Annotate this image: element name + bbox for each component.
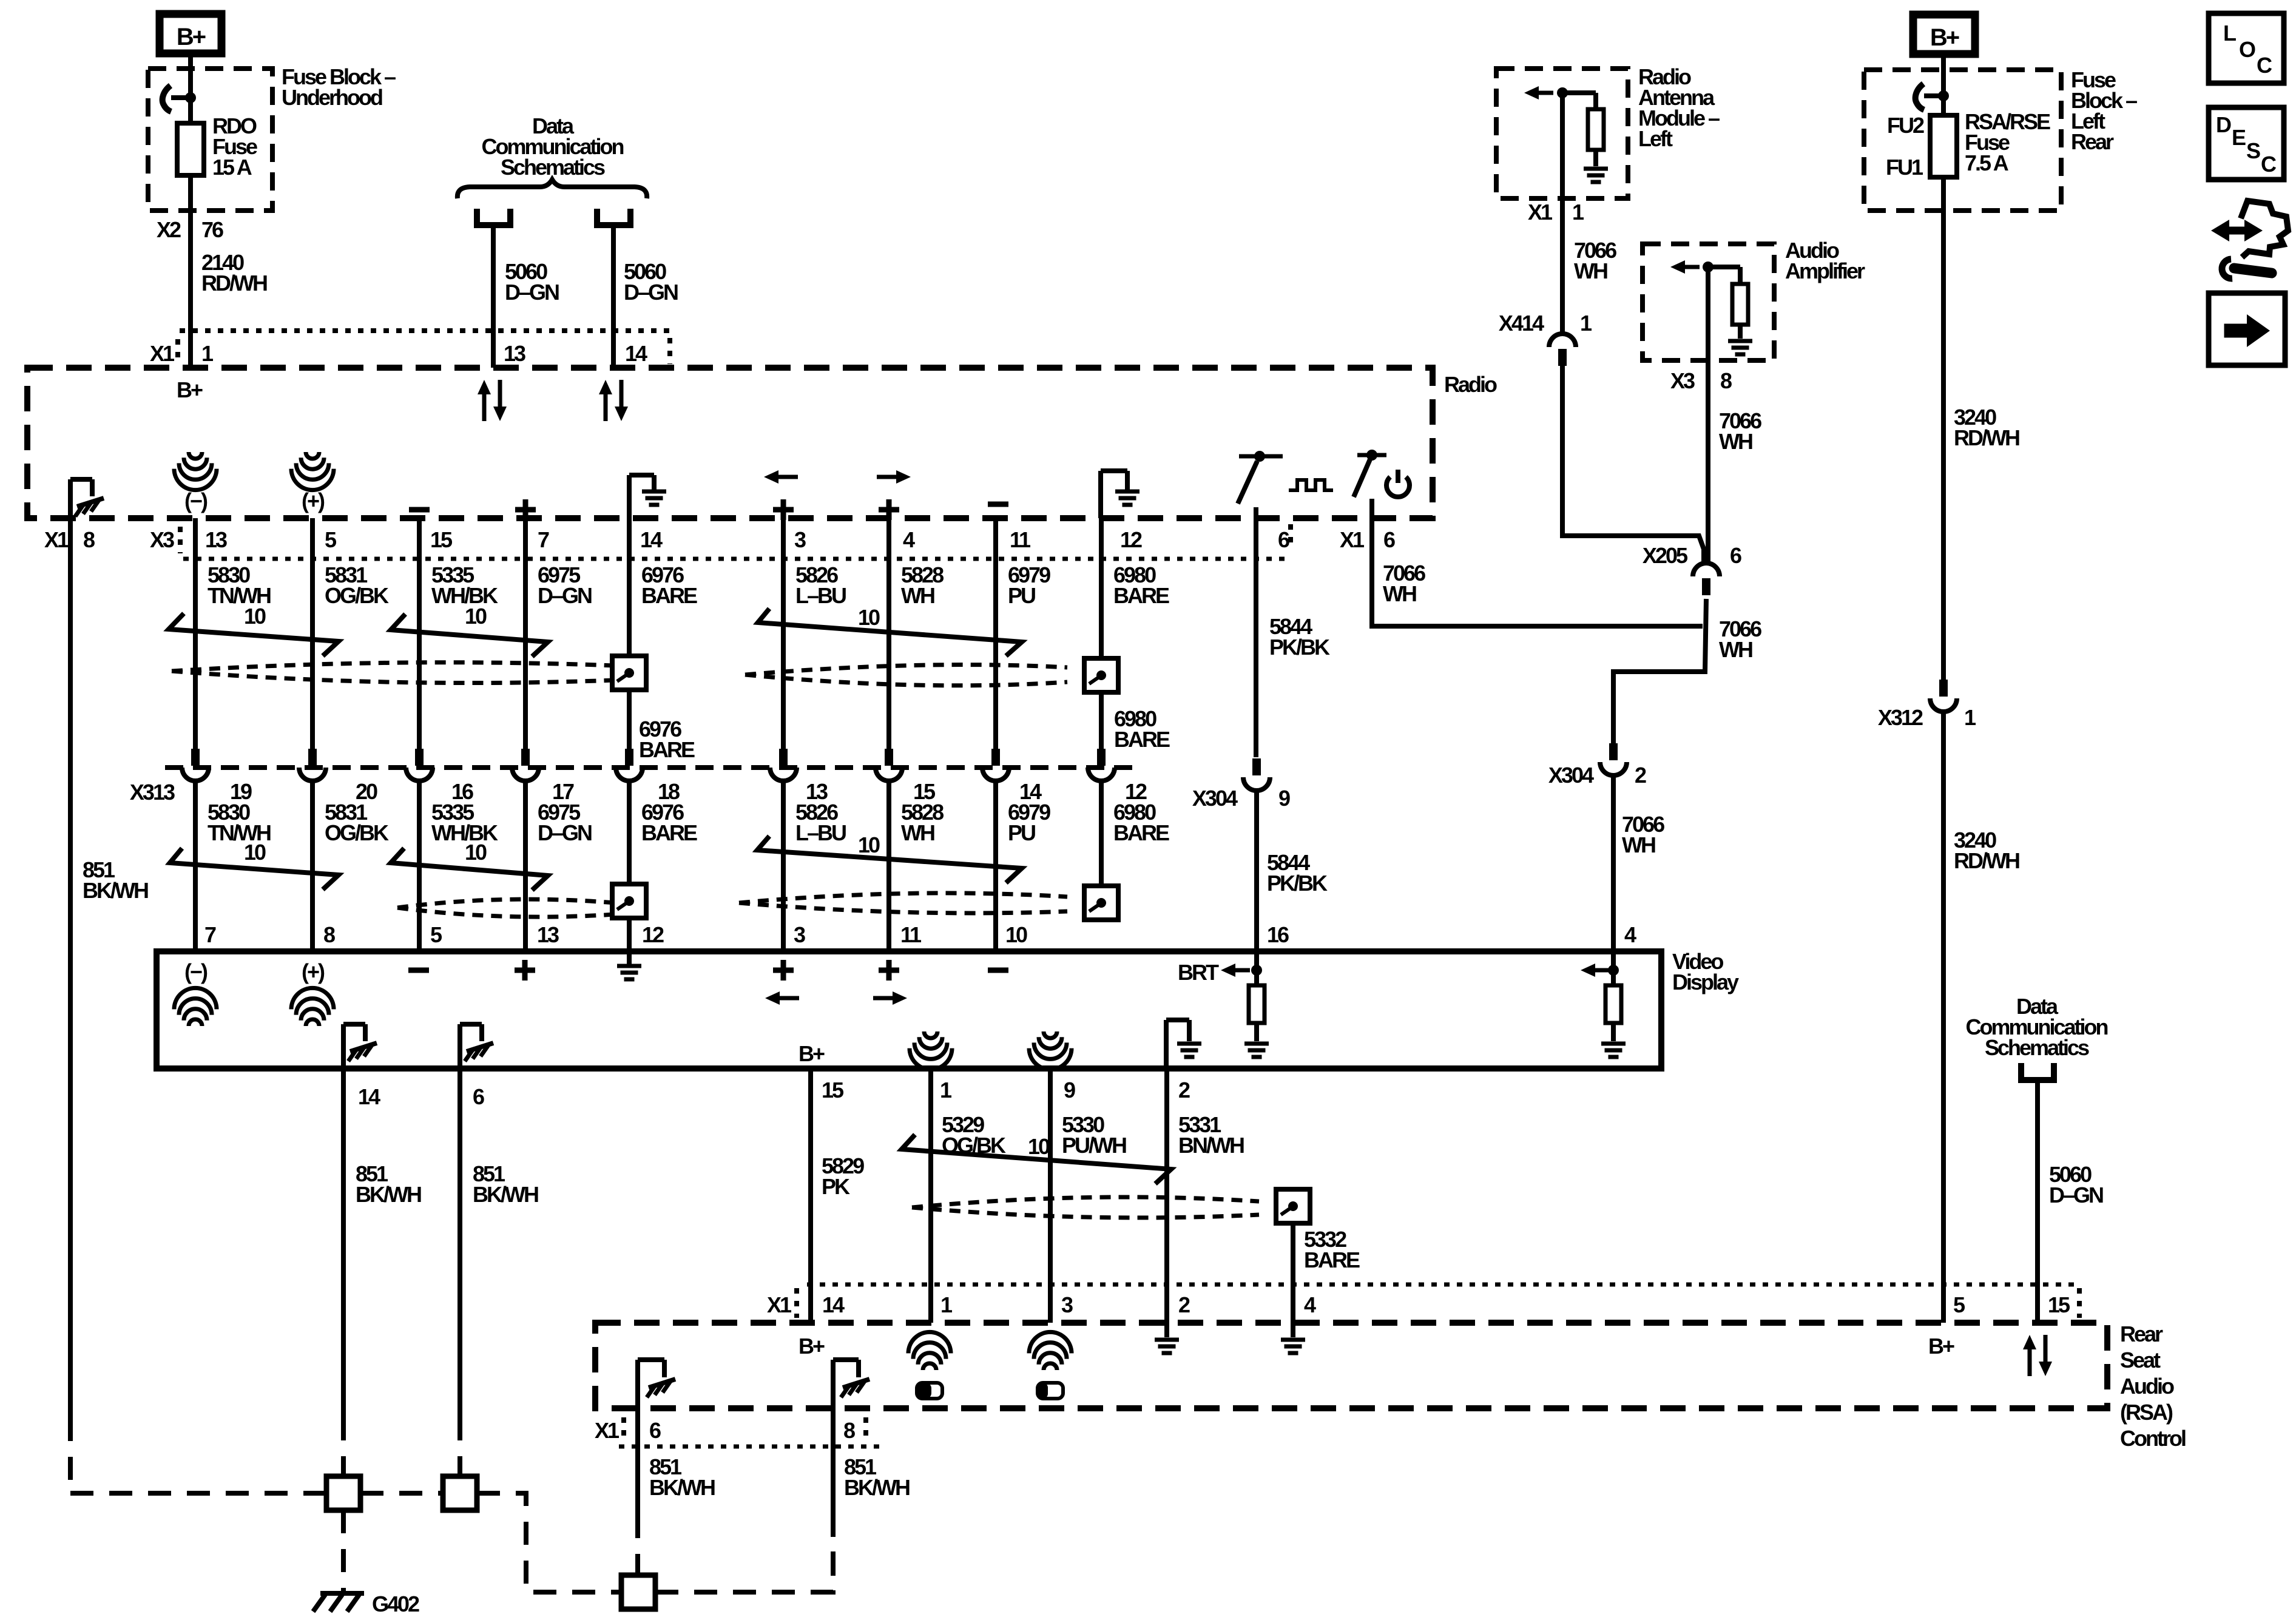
rsa speaker pin 1	[923, 1363, 936, 1370]
svg-text:9: 9	[1064, 1078, 1075, 1102]
svg-text:12: 12	[1120, 527, 1142, 552]
twisted pair symbol 5335/6975	[391, 614, 548, 657]
rsa chassis ground X1-6	[635, 1360, 640, 1408]
svg-text:X414: X414	[1499, 311, 1544, 336]
svg-text:OG/BK: OG/BK	[325, 820, 389, 845]
svg-text:3: 3	[794, 922, 805, 947]
svg-text:2: 2	[1178, 1078, 1190, 1102]
svg-text:10: 10	[244, 840, 266, 865]
svg-text:13: 13	[537, 922, 559, 947]
wire B+ to fuse	[188, 53, 193, 123]
wire 6980 BARE upper	[1099, 518, 1104, 749]
wire 6976 BARE lower	[627, 781, 632, 884]
svg-text:3: 3	[1061, 1292, 1073, 1317]
radio switch with PWM pin 6	[1254, 451, 1265, 462]
connector X313 pin 17	[521, 749, 530, 766]
wire 5060 D-GN left	[491, 228, 496, 368]
wire 6980 BARE lower	[1099, 781, 1104, 884]
twisted pair symbol lower 5830/5831	[170, 848, 339, 890]
svg-text:4: 4	[1304, 1292, 1316, 1317]
svg-text:BK/WH: BK/WH	[83, 878, 148, 903]
wire 6979 PU lower	[993, 781, 998, 951]
twisted pair symbol lower 5335/6975	[391, 848, 548, 890]
svg-text:PU: PU	[1008, 820, 1035, 845]
wrench	[2234, 268, 2272, 273]
wire 5830 TN/WH upper	[193, 518, 198, 749]
twisted pair symbol 5830/5831	[169, 613, 339, 656]
rsa speaker pin 3	[1044, 1363, 1057, 1370]
rsa chassis ground X1-8	[831, 1360, 836, 1408]
svg-text:7: 7	[204, 922, 216, 947]
svg-text:6: 6	[1383, 527, 1395, 552]
svg-text:14: 14	[640, 527, 663, 552]
wire 5829 PK vd pin 15 to rsa	[808, 1068, 813, 1323]
vd plus right-arrow pin 11	[879, 968, 899, 973]
svg-text:(RSA): (RSA)	[2120, 1400, 2173, 1425]
twisted pair symbol 5826/5828	[758, 609, 1022, 656]
rsa bottom X1 separator dots	[621, 1417, 626, 1443]
svg-text:BARE: BARE	[1113, 820, 1169, 845]
wire 5332 BARE	[1291, 1223, 1295, 1323]
svg-text:BARE: BARE	[641, 820, 697, 845]
svg-text:G402: G402	[372, 1592, 419, 1616]
svg-text:X1: X1	[150, 341, 175, 366]
svg-text:BK/WH: BK/WH	[356, 1182, 421, 1207]
connector X313 pin 14	[991, 749, 1000, 766]
svg-text:Control: Control	[2120, 1426, 2186, 1451]
fuse RSA/RSE 7.5A	[1930, 115, 1957, 177]
svg-text:D–GN: D–GN	[2049, 1183, 2103, 1207]
svg-text:Display: Display	[1672, 970, 1739, 994]
wire 5831 OG/BK upper	[310, 518, 315, 749]
radio speaker plus pin 5	[306, 452, 319, 459]
connector X313 pin 15	[885, 749, 893, 766]
svg-text:FU1: FU1	[1886, 155, 1923, 180]
ground bus dashed C to X1-8 wire	[655, 1517, 833, 1592]
svg-text:X3: X3	[1670, 368, 1695, 393]
svg-text:4: 4	[903, 527, 915, 552]
svg-text:D–GN: D–GN	[538, 820, 592, 845]
audio amplifier dashed box	[1643, 244, 1774, 360]
radio X3 connector dotted line	[183, 557, 1291, 561]
radio X1 connector dotted line	[180, 328, 670, 333]
icon jump wrench	[2221, 227, 2253, 235]
wire 6976 splice to VD pin 12	[627, 918, 632, 951]
svg-text:5: 5	[325, 527, 337, 552]
radio plus left-arrow pin 3	[776, 475, 798, 479]
twisted pair symbol 5329/5330	[902, 1135, 1171, 1184]
svg-text:(+): (+)	[302, 959, 325, 984]
vd chassis ground left	[341, 1024, 346, 1068]
wire 5335 WH/BK lower	[417, 781, 422, 951]
shield splice on 6980	[1084, 658, 1118, 692]
radio antenna module dashed box	[1496, 69, 1628, 198]
svg-text:B+: B+	[177, 377, 203, 402]
wire 5330 PU/WH	[1048, 1068, 1053, 1323]
rsa fader icon pin 3	[1038, 1383, 1063, 1399]
svg-text:12: 12	[642, 922, 664, 947]
svg-text:D–GN: D–GN	[538, 583, 592, 608]
svg-text:X304: X304	[1192, 786, 1238, 811]
svg-text:13: 13	[504, 341, 525, 366]
svg-text:BARE: BARE	[1114, 727, 1170, 752]
wire X414 to X205	[1562, 366, 1704, 563]
svg-text:WH: WH	[1719, 637, 1752, 662]
wire amp to X205	[1706, 267, 1710, 563]
svg-text:B+: B+	[1930, 24, 1959, 51]
svg-text:WH: WH	[1622, 832, 1655, 857]
wire X205 to X304	[1613, 599, 1706, 743]
svg-text:X1: X1	[1528, 200, 1553, 224]
shield splice lower on 6980	[1084, 886, 1118, 920]
rsa connector dotted line	[807, 1283, 2078, 1287]
rsa bottom dotted line	[619, 1445, 883, 1449]
radio speaker minus pin 13	[189, 452, 202, 459]
svg-text:6: 6	[1730, 543, 1741, 568]
shield splice on 5332	[1276, 1189, 1310, 1223]
svg-text:X3: X3	[150, 527, 174, 552]
vd earth ground pin 12	[627, 951, 632, 965]
svg-text:L–BU: L–BU	[795, 820, 846, 845]
svg-text:B+: B+	[177, 24, 206, 50]
video display box	[157, 951, 1661, 1068]
icon arrow box	[2209, 293, 2285, 365]
shield ellipse rsa	[912, 1197, 1259, 1207]
svg-text:BRT: BRT	[1178, 960, 1219, 985]
rear seat audio control dashed box	[595, 1323, 2107, 1408]
svg-text:15 A: 15 A	[212, 155, 252, 180]
wire 5828 WH upper	[886, 518, 891, 749]
X1 separator dots left	[175, 339, 180, 365]
svg-text:14: 14	[625, 341, 647, 366]
svg-text:D–GN: D–GN	[505, 280, 559, 305]
svg-text:O: O	[2239, 37, 2255, 62]
icon DESC box	[2209, 107, 2284, 180]
antenna arrow	[1536, 91, 1553, 95]
svg-text:X312: X312	[1878, 705, 1923, 730]
connector X304 pin 9	[1252, 758, 1261, 775]
svg-text:14: 14	[822, 1292, 845, 1317]
jagged outline	[2241, 201, 2288, 257]
svg-text:RD/WH: RD/WH	[1954, 848, 2019, 873]
svg-text:4: 4	[1624, 922, 1636, 947]
data arrows pin 13	[478, 380, 507, 421]
wire 5826 L–BU lower	[781, 781, 786, 951]
wire 5844 PK/BK upper	[1254, 518, 1258, 757]
connector X414 pin 1	[1549, 334, 1576, 347]
rsa earth ground pin 2	[1164, 1323, 1169, 1337]
svg-text:X1: X1	[44, 527, 69, 552]
separator dots after pin 6	[1288, 524, 1293, 549]
svg-text:WH: WH	[1719, 429, 1752, 454]
wire 5828 WH lower	[886, 781, 891, 951]
antenna junction dot	[1557, 87, 1568, 98]
amp antenna arrow	[1683, 265, 1700, 269]
wire 5335 WH/BK upper	[417, 518, 422, 749]
wire 6976 BARE upper	[627, 518, 632, 749]
X313 connector dashed line	[165, 765, 1141, 770]
ground G402	[320, 1591, 364, 1596]
connector X313 pin 13	[779, 749, 788, 766]
svg-text:14: 14	[358, 1084, 380, 1109]
svg-text:L–BU: L–BU	[795, 583, 846, 608]
svg-text:PU/WH: PU/WH	[1062, 1133, 1126, 1158]
shield splice lower on 6976	[612, 884, 646, 918]
svg-text:6: 6	[649, 1418, 661, 1443]
svg-text:7.5 A: 7.5 A	[1965, 150, 2009, 175]
switch hook in fuse block	[171, 95, 191, 100]
svg-text:S: S	[2246, 138, 2260, 163]
svg-text:WH: WH	[901, 583, 934, 608]
rsa separator dots right end	[2077, 1288, 2082, 1318]
svg-text:Radio: Radio	[1444, 372, 1497, 397]
amp resistor to ground	[1708, 265, 1740, 269]
svg-text:D: D	[2216, 112, 2231, 137]
svg-text:1: 1	[201, 341, 214, 366]
fuse block left rear dashed box	[1864, 70, 2061, 211]
svg-text:6: 6	[1278, 527, 1289, 552]
svg-text:1: 1	[940, 1078, 952, 1102]
svg-text:10: 10	[858, 832, 880, 857]
svg-text:8: 8	[83, 527, 95, 552]
wire 7066 WH from radio X1-6	[1372, 518, 1703, 626]
data link connector stub left	[477, 209, 510, 225]
radio dashed box	[27, 368, 1433, 518]
radio earth ground pin 12	[1098, 471, 1103, 518]
fuse RDO 15A	[177, 123, 204, 175]
svg-text:8: 8	[843, 1418, 855, 1443]
svg-text:WH: WH	[901, 820, 934, 845]
ground bus dashed left	[70, 1491, 326, 1496]
svg-text:2: 2	[1635, 763, 1646, 788]
svg-text:10: 10	[1005, 922, 1027, 947]
right arrow	[2224, 324, 2249, 337]
svg-text:(−): (−)	[184, 488, 208, 513]
shield ellipse lower group1	[397, 899, 615, 908]
svg-text:X205: X205	[1643, 543, 1688, 568]
svg-text:X304: X304	[1548, 763, 1594, 788]
radio earth ground pin 14	[627, 475, 632, 518]
svg-text:C: C	[2257, 53, 2272, 78]
wire 6975 D–GN lower	[523, 781, 528, 951]
wire 3240 RD/WH to X312	[1941, 177, 1946, 683]
shield splice on 6976	[612, 656, 646, 690]
connector X313 pin 18	[625, 749, 633, 766]
svg-text:WH: WH	[1383, 581, 1416, 606]
vd speaker pin 1	[924, 1031, 937, 1038]
wire 851 BK/WH from vd pin 6	[458, 1068, 462, 1417]
svg-text:E: E	[2232, 125, 2246, 150]
svg-text:BK/WH: BK/WH	[649, 1475, 715, 1500]
svg-text:15: 15	[822, 1078, 844, 1102]
wire 5830 TN/WH lower	[193, 781, 198, 951]
svg-text:1: 1	[1572, 200, 1584, 224]
svg-text:(−): (−)	[184, 959, 208, 984]
radio power switch pin X1-6	[1366, 450, 1377, 461]
svg-text:X313: X313	[130, 780, 175, 805]
vd ground hook pin 2	[1164, 1020, 1169, 1068]
wire fuse to radio X1-1	[188, 175, 193, 368]
svg-text:11: 11	[1010, 527, 1031, 552]
vd speaker pin 9	[1044, 1031, 1057, 1038]
fuse block - underhood dashed box	[148, 69, 272, 211]
amp junction dot	[1703, 262, 1714, 272]
svg-text:11: 11	[900, 922, 922, 947]
data arrows pin 14	[599, 380, 628, 421]
wire X304-2 to video display pin 4	[1611, 775, 1616, 951]
svg-text:10: 10	[465, 604, 487, 629]
svg-text:15: 15	[2048, 1292, 2070, 1317]
rsa data arrows pin 15	[2023, 1335, 2052, 1376]
svg-text:Audio: Audio	[2120, 1374, 2174, 1399]
svg-text:WH: WH	[1574, 258, 1607, 283]
wire 5844 PK/BK lower	[1254, 791, 1259, 951]
X3 separator dots	[178, 527, 183, 553]
data link connector stub	[2021, 1063, 2054, 1080]
svg-text:15: 15	[430, 527, 453, 552]
vd resistor pin 4	[1593, 968, 1610, 973]
svg-text:X2: X2	[157, 217, 181, 242]
vd minus pin 5	[408, 968, 429, 973]
svg-text:PU: PU	[1008, 583, 1035, 608]
svg-text:6: 6	[473, 1084, 484, 1109]
wire 851 BK/WH rsa X1-6	[635, 1408, 640, 1515]
radio minus pin 15	[409, 507, 430, 513]
svg-text:5: 5	[430, 922, 442, 947]
power symbol B+ (battery feed, top left)	[160, 14, 221, 53]
separator dots right	[863, 1417, 868, 1443]
svg-text:10: 10	[858, 605, 880, 630]
svg-text:FU2: FU2	[1887, 113, 1924, 138]
svg-text:10: 10	[1028, 1134, 1050, 1159]
wire 6979 PU upper	[993, 518, 998, 749]
svg-text:BK/WH: BK/WH	[473, 1182, 538, 1207]
vd plus left-arrow pin 3	[773, 968, 794, 973]
svg-text:1: 1	[1964, 705, 1976, 730]
svg-text:Rear: Rear	[2071, 129, 2114, 154]
svg-text:8: 8	[1720, 368, 1732, 393]
radio plus pin 7	[515, 507, 536, 513]
wire B+ into fuse block	[1941, 54, 1946, 115]
ground splice A	[326, 1476, 360, 1510]
svg-text:X1: X1	[767, 1292, 792, 1317]
svg-text:OG/BK: OG/BK	[325, 583, 389, 608]
connector X312 pin 1	[1939, 680, 1948, 697]
svg-text:B+: B+	[799, 1041, 825, 1066]
svg-text:BARE: BARE	[641, 583, 697, 608]
svg-text:5: 5	[1953, 1292, 1965, 1317]
vd plus pin 13	[515, 968, 535, 973]
connector X313 pin 20	[308, 749, 317, 766]
power symbol B+ (left rear)	[1913, 15, 1975, 54]
svg-text:PK/BK: PK/BK	[1267, 871, 1328, 896]
svg-text:D–GN: D–GN	[624, 280, 678, 305]
rsa earth ground pin 4	[1291, 1323, 1295, 1337]
svg-text:(+): (+)	[302, 488, 325, 513]
ground bus dashed A-B	[360, 1491, 443, 1496]
svg-text:Underhood: Underhood	[282, 85, 382, 110]
rsa fader icon pin 1	[917, 1383, 942, 1399]
antenna resistor to ground	[1562, 90, 1596, 95]
svg-text:13: 13	[205, 527, 227, 552]
svg-text:10: 10	[244, 604, 266, 629]
svg-text:L: L	[2223, 21, 2236, 46]
ground bus dashed B to corner	[477, 1493, 621, 1592]
svg-text:RD/WH: RD/WH	[201, 271, 267, 295]
connector X313 pin 16	[415, 749, 424, 766]
ground splice B	[443, 1476, 477, 1510]
connector X304 pin 2	[1609, 743, 1618, 760]
svg-text:B+: B+	[799, 1334, 825, 1359]
connector X313 pin 12	[1097, 749, 1106, 766]
shield ellipse upper group1	[172, 663, 615, 671]
wire 5331 BN/WH	[1164, 1068, 1169, 1323]
ground splice C	[621, 1575, 655, 1609]
radio plus right-arrow pin 4	[877, 475, 899, 479]
wire 5329 OG/BK	[928, 1068, 933, 1323]
svg-text:1: 1	[1580, 311, 1592, 336]
radio ground pin X1-8 chassis	[68, 479, 73, 518]
svg-text:Left: Left	[1638, 126, 1673, 151]
svg-text:7: 7	[538, 527, 549, 552]
radio minus pin 11	[988, 502, 1008, 507]
svg-text:PK: PK	[822, 1174, 850, 1199]
shield ellipse upper group2	[745, 665, 1067, 675]
svg-text:76: 76	[201, 217, 223, 242]
data link connector stub right	[597, 209, 630, 225]
svg-text:9: 9	[1278, 786, 1290, 811]
wire 5060 D-GN right	[611, 228, 616, 368]
wire 851 BK/WH rsa X1-8	[831, 1408, 836, 1513]
svg-text:B+: B+	[1928, 1334, 1954, 1359]
curly brace	[458, 180, 647, 198]
svg-text:X1: X1	[595, 1418, 620, 1443]
twisted pair symbol lower 5826/5828	[757, 836, 1022, 883]
svg-text:BARE: BARE	[1113, 583, 1169, 608]
svg-text:Amplifier: Amplifier	[1785, 258, 1865, 283]
svg-text:BN/WH: BN/WH	[1178, 1133, 1244, 1158]
wire X312 to rsa pin 5	[1941, 712, 1946, 1323]
svg-text:16: 16	[1267, 922, 1289, 947]
vd chassis ground right	[458, 1024, 462, 1068]
switch hook left rear	[1924, 93, 1943, 98]
svg-text:RD/WH: RD/WH	[1954, 425, 2019, 450]
svg-text:Schematics: Schematics	[1985, 1035, 2089, 1060]
wire antenna module to X414	[1560, 93, 1565, 333]
wire 5060 D-GN to rsa pin 15	[2035, 1083, 2040, 1323]
svg-text:BK/WH: BK/WH	[844, 1475, 910, 1500]
shield ellipse lower group2	[739, 893, 1067, 903]
X1 separator dots right	[667, 338, 672, 364]
connector X313 pin 19	[191, 749, 200, 766]
svg-text:1: 1	[940, 1292, 953, 1317]
svg-text:3: 3	[794, 527, 806, 552]
wire splice A to G402	[341, 1510, 346, 1591]
svg-text:10: 10	[465, 840, 487, 865]
svg-text:PK/BK: PK/BK	[1269, 635, 1330, 660]
svg-text:Rear: Rear	[2120, 1322, 2163, 1346]
wire 5826 L–BU upper	[781, 518, 786, 749]
svg-text:BARE: BARE	[639, 737, 695, 762]
icon LOC box	[2209, 13, 2284, 83]
connector X205 pin 6	[1693, 563, 1720, 576]
wire 6975 D–GN upper	[523, 518, 528, 749]
wire 851 BK/WH from vd pin 14	[341, 1068, 346, 1417]
rsa X1 separator dots	[794, 1288, 799, 1318]
vd minus pin 10	[988, 968, 1008, 973]
svg-text:2: 2	[1178, 1292, 1190, 1317]
svg-text:X1: X1	[1340, 527, 1365, 552]
